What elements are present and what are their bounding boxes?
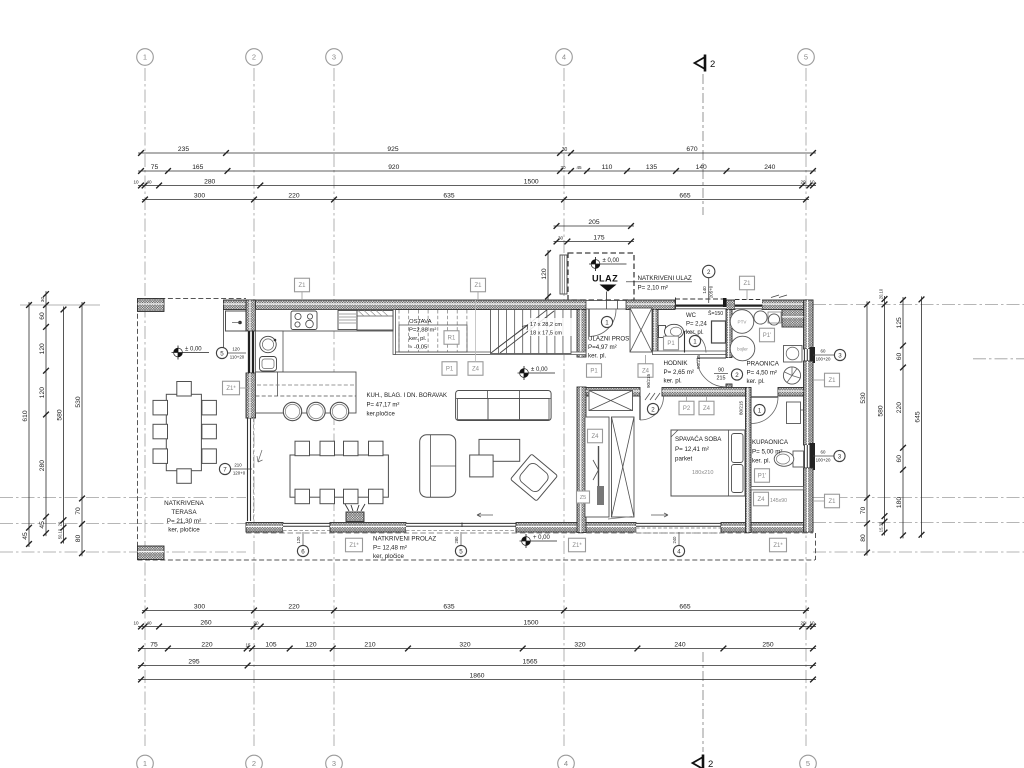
top exterior wall segment right corner [762,300,813,310]
svg-text:300: 300 [194,603,205,610]
svg-text:120: 120 [39,343,46,354]
svg-text:645: 645 [914,411,921,422]
fireplace flue on bottom wall [346,512,364,522]
svg-text:OSTAVA: OSTAVA [409,319,432,325]
svg-text:30: 30 [558,235,564,240]
svg-text:580: 580 [877,405,884,416]
svg-text:Z4: Z4 [757,497,765,503]
svg-text:4: 4 [677,548,681,555]
svg-text:530: 530 [75,396,82,407]
left wall sliding glass door [247,418,249,521]
sofa [456,391,551,421]
svg-text:80: 80 [860,534,867,542]
laundry door mark [731,369,742,380]
kitchen appliance hatched [338,311,357,330]
svg-text:ker. pl.: ker. pl. [752,458,771,465]
staircase U1 [491,310,572,354]
entry closet [630,308,652,352]
svg-text:2: 2 [252,53,256,62]
svg-text:530: 530 [860,392,867,403]
svg-text:PTV: PTV [738,320,748,325]
wall wc-laundry [726,310,732,358]
svg-text:140: 140 [696,164,707,171]
svg-text:5: 5 [220,350,224,357]
porch vertical dimension 120 [547,250,549,300]
left exterior wall upper segment [246,300,256,331]
bottom dimension row 4 (295/1565) [138,665,816,667]
svg-text:5: 5 [804,53,808,62]
svg-text:110+20: 110+20 [230,355,245,360]
svg-text:120: 120 [39,387,46,398]
svg-text:3: 3 [332,53,336,62]
svg-text:260: 260 [200,619,211,626]
svg-text:SPAVAĆA SOBA: SPAVAĆA SOBA [675,436,722,443]
svg-text:45: 45 [39,521,46,529]
svg-text:KUH., BLAG. I DN. BORAVAK: KUH., BLAG. I DN. BORAVAK [367,393,447,399]
svg-text:635: 635 [443,192,454,199]
svg-text:30: 30 [562,147,568,153]
bedroom door [639,396,641,420]
svg-text:240: 240 [674,641,685,648]
svg-text:5: 5 [459,548,463,555]
svg-text:60: 60 [821,349,826,354]
entry floor tag P1 [587,364,602,378]
svg-text:20: 20 [800,179,806,184]
svg-text:Z4: Z4 [591,434,599,440]
svg-text:920: 920 [388,164,399,171]
svg-text:105: 105 [265,641,276,648]
wall tag Z1 right upper [825,373,840,387]
right wall laundry window [804,349,813,361]
svg-text:Z1*: Z1* [349,543,359,549]
laundry door [697,357,726,359]
svg-text:Z1: Z1 [743,281,751,287]
laundry fan [783,367,800,384]
tag Z5 [577,491,590,503]
svg-text:165: 165 [192,164,203,171]
right wall mark 3 upper [834,349,845,360]
svg-text:300: 300 [194,192,205,199]
svg-text:235: 235 [178,146,189,153]
svg-text:2: 2 [735,372,739,379]
svg-text:5: 5 [806,759,810,768]
svg-text:1565: 1565 [523,658,538,665]
wall tag Z1 right lower [825,494,840,508]
right exterior wall segment 1 [804,300,814,349]
svg-text:Z1: Z1 [474,283,482,289]
svg-text:10: 10 [809,179,815,184]
svg-text:Z1: Z1 [828,499,836,505]
svg-text:50,10: 50,10 [57,528,62,539]
bathroom door [752,396,779,398]
entrance door mark [601,316,612,327]
roof overhang dashed line [246,532,813,534]
svg-text:240: 240 [764,164,775,171]
svg-text:45: 45 [576,165,582,170]
cooktop [291,311,317,330]
svg-text:125: 125 [896,317,903,328]
laundry floor tag P1' [760,328,775,342]
dining chairs [295,441,310,456]
top dimension row 3 (10/40/280/1500/20/10) [138,185,816,187]
bathroom bottom wall [751,487,804,490]
svg-text:30: 30 [560,165,566,170]
svg-text:R1: R1 [448,336,456,342]
wall hodnik-laundry lower [726,384,732,396]
svg-text:Z1*: Z1* [226,386,236,392]
svg-text:1860: 1860 [470,672,485,679]
wall hallway-bedroom horizontal 2 [662,388,751,397]
left dimension column 580 [63,307,65,544]
svg-text:220: 220 [288,603,299,610]
svg-text:180x210: 180x210 [692,470,713,476]
svg-text:320: 320 [574,641,585,648]
svg-text:20: 20 [57,521,62,526]
entrance door [588,309,590,336]
entry canopy column [560,255,567,294]
svg-text:80/215: 80/215 [739,401,744,415]
svg-text:P= 21,30 m²: P= 21,30 m² [167,518,201,525]
svg-text:220: 220 [896,402,903,413]
svg-text:240: 240 [672,536,677,544]
kitchen overhead cabinet dashed line [257,384,356,386]
left wall kitchen window [247,331,255,373]
svg-text:1: 1 [143,53,147,62]
right exterior wall segment 2 [804,361,814,445]
svg-text:NATKRIVENI PROLAZ: NATKRIVENI PROLAZ [373,536,436,543]
svg-text:P= 4,50 m²: P= 4,50 m² [747,370,777,377]
svg-text:15: 15 [245,642,251,647]
wc shaft [712,321,726,343]
right dimension column 125/60/220/60/180 [902,297,904,538]
svg-text:18 x 17,5 cm: 18 x 17,5 cm [530,331,562,337]
bottom wall bedroom sliding door [636,523,721,532]
kitchen counter top [256,310,394,332]
svg-text:120: 120 [296,536,301,544]
svg-text:100+20: 100+20 [816,357,831,362]
wall tag Z1* bottom 1 [346,538,363,552]
wall below wc [653,351,727,355]
dining table [290,455,388,497]
bottom exterior wall segment 2 [330,523,406,533]
svg-text:P2: P2 [683,406,691,412]
section marker 2 top [695,57,706,69]
laundry shaft hatch [782,310,804,328]
entry closet tag Z4 [638,364,653,378]
svg-text:665: 665 [679,192,690,199]
bedroom wardrobe top with X [589,391,633,411]
svg-text:100+20: 100+20 [816,458,831,463]
svg-text:NATKRIVENI ULAZ: NATKRIVENI ULAZ [638,275,692,282]
grid bubbles top 1-5 [137,49,154,66]
passage level mark [522,537,531,546]
svg-text:P= 12,41 m²: P= 12,41 m² [675,446,709,453]
svg-text:Z5: Z5 [580,495,587,501]
svg-text:670: 670 [686,146,697,153]
svg-text:3: 3 [838,453,842,460]
bedroom slider arrow [608,517,632,520]
svg-text:NATKRIVENA: NATKRIVENA [164,500,205,507]
bathroom floor tag P1' [755,469,770,483]
laundry sink [784,346,803,363]
svg-text:120: 120 [305,641,316,648]
pantry tag R1 [444,331,459,345]
porch dimension 205 [554,225,635,227]
bathroom door mark [754,404,765,415]
bathroom toilet [793,451,804,467]
grid bubbles bottom 1-5 [137,755,154,768]
kitchen corner sink square [260,357,277,372]
svg-text:120: 120 [541,268,548,279]
svg-text:40: 40 [146,620,152,625]
svg-text:580: 580 [56,409,63,420]
svg-text:17 x 28,2 cm: 17 x 28,2 cm [530,322,562,328]
top dimension row 2 (75/165/920/...240) [138,170,816,172]
bathroom washer [787,402,801,424]
wardrobe tag Z4 [588,429,603,443]
svg-text:2: 2 [651,406,655,413]
right wall mark 3 lower [834,450,845,461]
svg-text:1: 1 [143,759,147,768]
svg-text:1: 1 [693,338,697,345]
svg-text:60: 60 [39,312,46,320]
terrace dashed outline [138,298,247,300]
svg-text:250: 250 [762,641,773,648]
svg-text:WC: WC [686,313,697,319]
right dimension column 20/10/580/15/30 [884,296,886,536]
svg-text:205: 205 [588,219,599,226]
top dimension row 4 (300/220/635/665) [142,199,809,201]
svg-text:210: 210 [234,463,242,468]
svg-text:P1': P1' [758,474,766,480]
terrace pier bottom-left [138,546,165,560]
svg-text:P1': P1' [763,333,771,339]
svg-text:Z4: Z4 [642,369,650,375]
svg-text:HODNIK: HODNIK [664,360,689,367]
pantry shelves dashed [398,310,400,352]
svg-text:2: 2 [708,759,713,768]
svg-text:180: 180 [896,497,903,508]
left dimension column 530/70/80 [81,302,83,556]
wall bathroom top [778,388,804,397]
svg-text:215: 215 [717,376,726,382]
svg-text:P= 12,48 m²: P= 12,48 m² [373,545,407,552]
top exterior wall segment wc-laundry [726,300,735,310]
bottom wall living sliding window [406,523,516,532]
kitchen left counter [256,331,284,372]
svg-text:ULAZ: ULAZ [592,274,618,284]
svg-text:205+0: 205+0 [709,285,714,298]
svg-text:90/215: 90/215 [646,374,651,388]
window mark 2 top [703,265,715,277]
svg-text:10: 10 [809,620,815,625]
svg-text:280: 280 [39,460,46,471]
svg-text:ker. pl.: ker. pl. [588,353,607,360]
svg-text:P1: P1 [590,369,598,375]
laundry washer dryer [754,311,767,324]
bar stools [283,402,301,420]
laundry PTV boiler [730,310,754,334]
svg-text:6: 6 [301,548,305,555]
svg-text:P1: P1 [667,341,675,347]
bottom exterior wall segment 1 [246,523,283,533]
svg-text:Z1: Z1 [298,283,306,289]
left dimension column 30/60/120/120/280/45 [45,291,47,536]
svg-text:280: 280 [454,536,459,544]
svg-text:140: 140 [702,286,707,294]
wall tag Z1* left [223,381,240,395]
svg-text:60: 60 [821,450,826,455]
svg-text:Z1*: Z1* [773,543,783,549]
svg-text:2: 2 [252,759,256,768]
terrace dining table [166,394,201,470]
svg-text:P=2,88 m²: P=2,88 m² [409,328,436,334]
svg-text:P= 47,17 m²: P= 47,17 m² [367,403,400,409]
svg-text:Z1: Z1 [828,378,836,384]
bedroom door mark [647,403,658,414]
svg-text:30: 30 [40,297,45,303]
svg-text:10: 10 [133,179,139,184]
svg-text:70: 70 [75,507,82,515]
bathroom niche [754,492,769,506]
svg-text:20: 20 [253,620,259,625]
svg-text:610: 610 [22,410,29,421]
bedroom tall wardrobe left [585,417,609,517]
wc door mark [689,335,700,346]
top dimension row 1 (235/925/30/670) [138,152,816,154]
svg-text:ker, pločice: ker, pločice [373,553,405,560]
kitchen niche box at wall end [226,311,247,331]
svg-text:120: 120 [232,347,240,352]
svg-text:ker. pl.: ker. pl. [664,378,683,385]
kitchen island [256,372,357,413]
left dimension column 610/45 [28,302,30,547]
terrace chairs [177,382,192,397]
svg-text:4: 4 [562,53,566,62]
svg-text:P=4,97 m²: P=4,97 m² [588,344,617,351]
svg-text:1: 1 [758,407,762,414]
svg-text:P= 5,00 m²: P= 5,00 m² [752,449,782,456]
terrace level mark [174,348,183,357]
bottom exterior wall segment 3 [516,523,636,533]
svg-text:1500: 1500 [524,619,539,626]
top wall window above laundry [735,299,762,310]
svg-text:KUPAONICA: KUPAONICA [752,439,789,446]
svg-text:1: 1 [605,319,609,326]
svg-text:P1: P1 [446,367,454,373]
svg-text:280: 280 [204,178,215,185]
left wall slider mark [219,463,230,474]
horizontal reference axes (dash-dot) [0,497,246,499]
svg-text:Z4: Z4 [703,406,711,412]
top exterior wall segment kitchen-stairs [224,300,587,310]
bed [671,430,745,496]
svg-text:PRAONICA: PRAONICA [747,361,780,368]
left exterior wall middle segment [246,373,256,418]
wall below pantry and stairs [394,352,586,355]
svg-text:± 0,00: ± 0,00 [603,258,620,264]
wall right of stairs [577,310,586,358]
svg-text:≈ -0,05: ≈ -0,05 [409,345,428,351]
wc door [684,331,686,353]
kitchen appliance 2 [357,311,393,331]
top exterior wall segment entry-wc [626,300,675,310]
pouf rotated [510,454,557,501]
svg-text:parket: parket [675,456,692,463]
wall hallway-bedroom horizontal [586,388,640,397]
right dimension column 530/70/80 [866,301,868,555]
wc floor tag P1 [664,336,679,350]
wall living-bedroom [577,387,586,533]
svg-text:175: 175 [593,234,604,241]
bottom dimension row 3 (75/220/15/105/120/210/320/320/240/250) [138,648,816,650]
pantry west wall [393,310,395,355]
bottom wall mark 4 [673,545,684,556]
right dimension column 645 [921,296,923,537]
bedroom tall wardrobe right with X [612,417,635,517]
svg-text:3: 3 [838,352,842,359]
svg-text:145x90: 145x90 [770,498,787,504]
laundry window opening arrows [771,295,787,298]
coffee table small [470,455,493,477]
wall tag Z1 top laundry [740,276,755,290]
svg-text:60: 60 [896,353,903,361]
svg-text:110: 110 [602,164,613,171]
svg-text:220: 220 [201,641,212,648]
svg-text:ker, pločice: ker, pločice [168,527,200,534]
svg-text:320: 320 [459,641,470,648]
wall entry-wc [653,310,659,352]
wall tag Z1* bottom 3 [770,538,787,552]
svg-text:15,30: 15,30 [878,521,883,532]
bedroom tags P2 Z4 [679,401,694,415]
bottom wall mark 5 [455,545,466,556]
svg-text:ker. pl.: ker. pl. [747,378,766,385]
wall tag Z1 top stairs [471,278,486,292]
svg-text:P= 2,10 m²: P= 2,10 m² [638,285,668,292]
svg-text:925: 925 [387,146,398,153]
svg-text:45: 45 [22,532,29,540]
bottom dimension row 2 (10/40/260/20/1500/20/10) [138,626,816,628]
svg-text:75: 75 [151,164,159,171]
left wall window mark [216,347,227,358]
bottom wall window terrace [283,523,330,532]
entry level mark [591,260,600,269]
svg-text:bojler: bojler [737,347,748,352]
svg-text:90: 90 [718,368,724,374]
kitchen tags P1 Z4 [442,362,457,376]
bottom exterior wall segment 4 [721,523,813,533]
wall tag Z1 top kitchen [295,278,310,292]
svg-text:10: 10 [133,620,139,625]
svg-text:4: 4 [564,759,568,768]
svg-text:295: 295 [188,658,199,665]
svg-text:70: 70 [860,507,867,515]
living level mark [520,369,529,378]
wall tag Z1* bottom 2 [569,538,586,552]
svg-text:60: 60 [896,455,903,463]
svg-text:3: 3 [332,759,336,768]
right exterior wall segment 3 [804,468,814,532]
svg-text:220: 220 [288,192,299,199]
svg-text:7: 7 [223,466,227,473]
svg-text:80: 80 [75,535,82,543]
kitchen corner sink round [260,336,276,352]
porch dimension 30/175 [554,241,635,243]
chaise armchair [420,435,456,498]
svg-text:2: 2 [710,59,715,70]
svg-text:P= 2,24: P= 2,24 [686,322,708,328]
